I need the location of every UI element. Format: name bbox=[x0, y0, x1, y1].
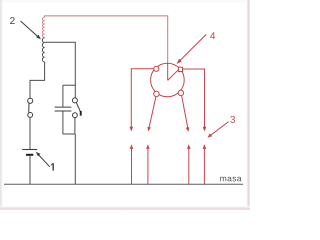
label 3 leader arrow bbox=[209, 122, 228, 137]
wire: switch to battery bbox=[29, 117, 31, 149]
spark plug electrode 2 (up arrow) bbox=[147, 147, 149, 185]
spark plug electrode 1 (up arrow) bbox=[131, 147, 133, 185]
wire: HT lead from coil top to distributor centre (red) bbox=[45, 16, 168, 63]
breaker points moving arm bbox=[76, 102, 80, 112]
capacitor C lower lead bbox=[62, 111, 64, 134]
breaker points anvil block bbox=[80, 111, 82, 116]
wire: coil bottom down, left and down to ignition switch bbox=[30, 62, 45, 98]
border frame left edge bbox=[0, 0, 3, 210]
distributor rotor centre lead bbox=[167, 63, 169, 80]
label 2 (coil) bbox=[10, 17, 15, 24]
label 1 leader arrow bbox=[37, 154, 50, 167]
wire: points lower contact to loop bottom and ground bbox=[74, 118, 76, 185]
border frame bottom edge bbox=[0, 206, 250, 210]
arrowhead down plug lead 1 bbox=[130, 127, 134, 132]
spark plug electrode 3 (up arrow) bbox=[188, 147, 190, 185]
distributor terminal bottom-left bbox=[154, 91, 159, 96]
label 4 leader arrow bbox=[179, 34, 207, 62]
capacitor C plates bbox=[55, 107, 72, 111]
border frame top edge bbox=[0, 0, 250, 3]
wire: condenser loop top bbox=[63, 84, 75, 86]
label 1 (battery) bbox=[52, 163, 54, 170]
wire: battery to ground bbox=[29, 156, 31, 184]
battery B1 long plate bbox=[22, 149, 37, 151]
wire: plug lead 4 from top-right terminal bbox=[183, 69, 205, 130]
ignition switch lower terminal circle bbox=[28, 112, 33, 117]
coil L secondary winding (gray bumps) bbox=[42, 38, 44, 62]
ground bus line (masa) bbox=[4, 183, 243, 185]
spark plug electrode 4 (up arrow) bbox=[203, 147, 205, 185]
ignition switch blade bbox=[28, 103, 30, 112]
label 3 (spark plugs) bbox=[230, 116, 235, 123]
distributor rotor arm bbox=[168, 70, 179, 81]
distributor cap circle bbox=[151, 63, 185, 97]
distributor terminal bottom-right bbox=[178, 90, 183, 95]
arrowhead down plug lead 4 bbox=[203, 127, 207, 132]
battery B1 short thick plate bbox=[26, 154, 33, 156]
breaker points lower contact circle bbox=[73, 113, 78, 118]
wire: plug lead 3 from bottom-right terminal bbox=[182, 96, 189, 130]
arrowhead down plug lead 3 bbox=[186, 127, 190, 132]
wire: coil mid tap to points branch (top horizontal) bbox=[45, 42, 76, 98]
node label masa (ground) bbox=[220, 177, 226, 182]
breaker points upper contact circle bbox=[72, 98, 77, 103]
capacitor C condenser left branch upper lead bbox=[62, 85, 64, 106]
distributor terminal top-right (square) bbox=[178, 67, 182, 71]
wire: plug lead 1 from top-left terminal bbox=[131, 69, 153, 130]
distributor terminal top-left bbox=[154, 66, 159, 71]
border frame right edge bbox=[246, 0, 250, 210]
label 2 leader arrow bbox=[21, 21, 39, 37]
coil L primary winding (red bumps) bbox=[42, 17, 44, 37]
wire: plug lead 2 from bottom-left terminal bbox=[149, 97, 156, 130]
wire: condenser loop bottom bbox=[63, 133, 75, 135]
arrowhead down plug lead 2 bbox=[147, 127, 151, 132]
ignition switch upper terminal circle bbox=[28, 98, 33, 103]
label 4 (distributor) bbox=[210, 32, 215, 39]
